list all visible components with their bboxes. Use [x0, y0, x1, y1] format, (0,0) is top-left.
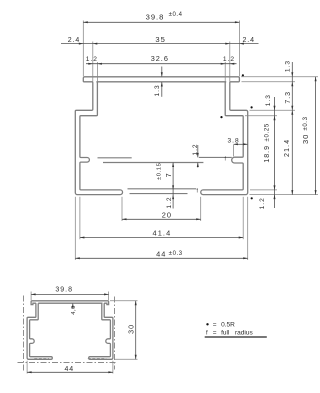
- extension line bottom opening left x=122: [121, 197, 123, 221]
- dimension 7 ±0.15 and 1.2 bottom wall thickness (center): [156, 163, 174, 209]
- dimension 35 with 2.4 / 2.4 overhangs: [61, 35, 259, 44]
- main view: thin web line in bottom opening (upper): [128, 188, 197, 190]
- extension line bottom opening right x=200.7: [200, 197, 202, 221]
- extension line step bottom y=115.7 (right): [245, 115, 277, 117]
- extension line left flange edge x=83.3: [82, 21, 84, 77]
- main view: internal web line upper right segment: [199, 156, 232, 158]
- svg-text:1.2: 1.2: [86, 56, 98, 63]
- legend: dot = 0.5R: [206, 322, 235, 329]
- svg-text:1.2: 1.2: [192, 143, 199, 155]
- main view: thin web line in bottom opening (lower): [130, 193, 188, 195]
- svg-text:7.3: 7.3: [285, 91, 292, 104]
- main view: extrusion profile cross-section outline: [75, 77, 247, 195]
- svg-text:1.2: 1.2: [166, 196, 173, 208]
- extension line inner wall left x=79.9: [79, 197, 81, 239]
- extension line left wall inner x=97.4: [96, 62, 98, 81]
- extension line flange top y=76.8 (right): [241, 76, 318, 78]
- small view dimension 39.8 top width: [31, 287, 109, 300]
- svg-text:1.2: 1.2: [259, 197, 266, 209]
- dimension chain 1.3 / 18.9 ±0.25 / 1.2 (right): [259, 94, 275, 209]
- svg-text:4,0: 4,0: [71, 305, 77, 315]
- svg-text:30: 30: [127, 324, 136, 334]
- small view leader 4,0: [71, 303, 77, 314]
- dimension chain 1.3 / 7.3 / 21.4 (right, inner column): [284, 60, 293, 195]
- svg-text:2.4: 2.4: [68, 37, 80, 44]
- legend: f = full radius: [206, 330, 253, 337]
- 0.5R marker dot at flange top right corner: [242, 74, 244, 76]
- extension line right wall inner x=225.2: [224, 62, 226, 81]
- svg-text:18.9: 18.9: [264, 145, 271, 163]
- small view dimension 30 height: [110, 301, 138, 360]
- extension line flange bottom y=81.8 (right): [242, 81, 296, 83]
- dimension 3.8 hook tip to outer wall: [228, 137, 248, 156]
- svg-text:39.8: 39.8: [146, 12, 165, 21]
- extension line step top y=110.3 (right): [250, 109, 296, 111]
- dimension 39.8 ±0.4 (top flange width): [83, 12, 239, 23]
- svg-text:±0.25: ±0.25: [264, 123, 270, 141]
- dimension 41.4 inner width: [80, 229, 243, 239]
- svg-text:full: full: [221, 330, 230, 337]
- svg-text:44: 44: [156, 250, 166, 259]
- extension line right flange edge x=239.4: [238, 21, 240, 77]
- svg-text:35: 35: [155, 35, 165, 44]
- svg-text:30: 30: [301, 134, 310, 144]
- svg-text:32.6: 32.6: [151, 54, 169, 63]
- svg-text:2.4: 2.4: [242, 37, 254, 44]
- svg-text:±0.3: ±0.3: [169, 251, 183, 257]
- extension line outer wall left x=75.3: [74, 197, 76, 260]
- extension line outer wall right x=247.7: [247, 197, 249, 260]
- extension line profile bottom y=194.6 (right): [250, 194, 319, 196]
- 0.5R marker dot at bottom right corner: [251, 197, 253, 199]
- small view: dashed web line in bottom wall (right): [88, 358, 107, 360]
- main view: internal web line upper left segment: [98, 157, 132, 159]
- small view: extrusion profile outline: [27, 301, 113, 360]
- dimension 32.6 with 1.2 / 1.2 wall thicknesses: [86, 54, 237, 65]
- extension line right wall outer x=229.8: [229, 42, 231, 82]
- 0.5R marker dot right of step corner: [251, 106, 253, 108]
- svg-text:=: =: [213, 330, 217, 337]
- extension line inner wall right x=243.2: [242, 197, 244, 239]
- svg-text:20: 20: [162, 210, 172, 219]
- svg-text:radius: radius: [235, 330, 253, 337]
- svg-text:1.3: 1.3: [265, 94, 272, 106]
- extension line bottom wall top y=189.9 (right): [250, 189, 277, 191]
- small view: chain (dash-dot) reference lines: [18, 296, 117, 372]
- svg-text:0.5R: 0.5R: [221, 322, 235, 329]
- svg-text:39.8: 39.8: [55, 287, 73, 294]
- dimension 1.2 web thickness: [192, 143, 199, 167]
- svg-text:1.3: 1.3: [154, 84, 161, 96]
- dimension 44 ±0.3 overall width: [75, 250, 247, 260]
- svg-text:1.3: 1.3: [285, 60, 292, 72]
- main view: internal web line lower segment: [103, 162, 203, 164]
- dimension 20 bottom opening: [122, 210, 201, 220]
- small view: dashed web line in bottom wall (left): [34, 358, 49, 360]
- svg-text:=: =: [213, 322, 217, 329]
- legend underline rule: [205, 336, 267, 338]
- 0.5R marker dot at step inner corner: [220, 116, 222, 118]
- svg-text:±0.15: ±0.15: [156, 163, 162, 180]
- svg-text:41.4: 41.4: [153, 229, 172, 238]
- svg-text:±0.4: ±0.4: [169, 12, 183, 18]
- dimension 30 ±0.3 overall height (right, outer column): [301, 77, 317, 195]
- small view dimension 44 bottom width: [27, 361, 113, 374]
- dimension 1.3 flange thickness (center): [154, 67, 163, 97]
- svg-text:7: 7: [164, 173, 173, 177]
- svg-text:44: 44: [65, 366, 75, 373]
- svg-text:±0.3: ±0.3: [303, 116, 309, 130]
- svg-text:1.2: 1.2: [223, 56, 235, 63]
- svg-text:21.4: 21.4: [284, 139, 291, 157]
- extension line left wall outer x=92.8: [92, 42, 94, 82]
- svg-text:3.8: 3.8: [228, 137, 240, 144]
